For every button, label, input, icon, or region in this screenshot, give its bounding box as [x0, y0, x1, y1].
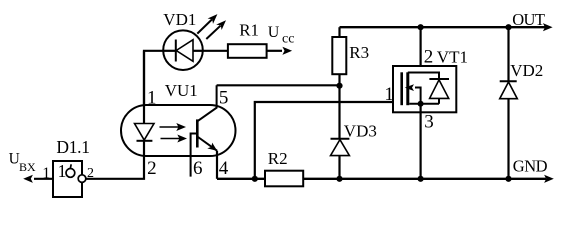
VD1 diode symbol [164, 40, 203, 62]
svg-text:VT1: VT1 [437, 48, 468, 67]
GND rail right of R2 [303, 178, 546, 180]
node dot VT1 drain on OUT rail [418, 24, 424, 30]
wire pin5 to R3/VD3 node [217, 84, 340, 86]
svg-text:1: 1 [58, 161, 67, 181]
gate wire from R2 node up and right to VT1 pin 1 [255, 102, 393, 179]
svg-text:3: 3 [424, 112, 434, 133]
svg-text:4: 4 [219, 158, 229, 179]
svg-text:R1: R1 [239, 21, 259, 40]
svg-text:1: 1 [147, 88, 157, 109]
resistor R1 [228, 44, 267, 58]
pin 3 wire of VT1 [420, 104, 422, 179]
wire VD1 to R1 [203, 50, 228, 52]
resistor R2 [265, 171, 303, 187]
svg-text:VU1: VU1 [165, 81, 198, 100]
VD1 light emission arrows [197, 14, 226, 39]
svg-text:U: U [268, 24, 280, 41]
gate inner glyph [66, 164, 75, 177]
svg-text:BX: BX [19, 160, 36, 174]
pin 6 base lead (dangling) [191, 134, 198, 177]
svg-text:VD3: VD3 [344, 121, 377, 140]
label U_BX [9, 150, 36, 174]
wire R1 to Ucc arrow [267, 50, 282, 52]
MOSFET internals [402, 72, 449, 107]
node dot VD2 on GND rail [505, 176, 511, 182]
svg-text:5: 5 [219, 88, 229, 109]
diode VD2 [500, 27, 518, 179]
svg-text:VD2: VD2 [510, 61, 543, 80]
phototransistor of VU1 [197, 85, 217, 151]
svg-text:R3: R3 [349, 43, 369, 62]
input terminal arrow U_BX [23, 175, 53, 183]
pin 4 wire down [216, 151, 218, 179]
svg-text:2: 2 [424, 47, 434, 68]
svg-text:GND: GND [513, 156, 548, 175]
node dot pin5/R3/VD3 [336, 83, 342, 89]
GND rail [217, 178, 265, 180]
node dot gate wire on GND rail [252, 176, 258, 182]
node dot VT1 source on GND [418, 176, 424, 182]
resistor R3 [332, 27, 346, 138]
svg-text:OUT: OUT [512, 10, 545, 29]
zener VD3 [331, 139, 350, 179]
node dot VD3 on GND [336, 176, 342, 182]
svg-text:VD1: VD1 [163, 10, 196, 29]
pin 2 wire of VT1 [420, 27, 422, 66]
wire D1.1 output to VU1 pin 2 [86, 156, 144, 179]
svg-text:1: 1 [42, 165, 50, 182]
logic gate D1.1 box [53, 161, 82, 197]
svg-text:6: 6 [193, 158, 203, 179]
node dot VD2 on OUT rail [505, 24, 511, 30]
MOSFET VT1 box [393, 66, 456, 112]
svg-text:cc: cc [282, 31, 294, 46]
svg-text:2: 2 [147, 158, 157, 179]
svg-text:D1.1: D1.1 [56, 137, 89, 157]
svg-text:R2: R2 [268, 149, 288, 168]
label Ucc [268, 24, 295, 46]
LED VD1 circle [163, 30, 203, 70]
pin 1 wire of VU1 [143, 51, 145, 105]
top rail OUT [340, 26, 546, 28]
light arrows inside VU1 [160, 123, 188, 143]
wire corner above pin1 to VD1 [144, 51, 163, 105]
inversion circle on D1.1 output [78, 175, 86, 183]
optocoupler VU1 body [121, 105, 236, 156]
LED inside VU1 [135, 105, 155, 156]
